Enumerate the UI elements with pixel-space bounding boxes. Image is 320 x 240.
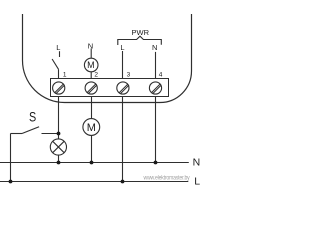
junction terminal3-L dot (121, 180, 125, 184)
wire PWR L to terminal 3 (122, 51, 124, 79)
svg-text:M: M (87, 60, 95, 70)
internal relay contact blade (52, 59, 58, 69)
svg-text:1: 1 (63, 71, 67, 78)
junction lamp-N dot (57, 161, 61, 165)
screw terminal 1 (53, 82, 65, 94)
wire PWR N to terminal 4 (155, 52, 157, 79)
wire terminal 2 down to motor M (91, 97, 93, 119)
junction switch-L dot (9, 180, 13, 184)
svg-text:PWR: PWR (132, 28, 150, 37)
svg-text:4: 4 (159, 71, 163, 78)
svg-text:L: L (120, 43, 124, 52)
device enclosure outline (23, 14, 192, 103)
wire lamp to N bus (58, 155, 60, 162)
switch S right lead to node A (42, 133, 59, 135)
svg-text:N: N (152, 43, 157, 52)
wire node A to lamp (58, 134, 60, 140)
L bus line (0, 181, 188, 183)
wire terminal 1 down to node A (58, 97, 60, 134)
svg-text:2: 2 (94, 71, 98, 78)
motor M load circle (83, 119, 100, 136)
wire terminal 4 down to N bus (155, 97, 157, 163)
svg-text:3: 3 (127, 71, 131, 78)
switch S left lead (11, 133, 23, 135)
internal contact lead (L) (59, 51, 61, 57)
wire motor to terminal 2 (90, 72, 92, 79)
junction node A dot (57, 132, 61, 136)
internal coil lead (N) (90, 49, 92, 59)
screw terminal 3 (117, 82, 129, 94)
internal motor symbol circle (84, 58, 98, 72)
svg-text:L: L (194, 176, 200, 188)
wire switch to L bus (10, 134, 12, 182)
terminal block (51, 79, 169, 97)
screw terminal 4 (149, 82, 161, 94)
wire motor to N bus (91, 135, 93, 162)
lamp symbol (50, 139, 66, 155)
junction motor-N dot (90, 161, 94, 165)
switch S blade (22, 127, 39, 134)
svg-text:N: N (88, 42, 93, 51)
svg-text:N: N (193, 156, 200, 168)
svg-text:L: L (56, 43, 60, 52)
svg-text:S: S (29, 109, 36, 125)
svg-text:www.elektromaster.by: www.elektromaster.by (143, 174, 191, 181)
screw terminal 2 (85, 82, 97, 94)
PWR bracket (118, 36, 162, 45)
svg-text:M: M (87, 122, 96, 134)
wire terminal 3 down to L bus (122, 97, 124, 182)
N bus line (0, 162, 189, 164)
junction terminal4-N dot (154, 161, 158, 165)
wire contact to terminal 1 (58, 69, 60, 78)
